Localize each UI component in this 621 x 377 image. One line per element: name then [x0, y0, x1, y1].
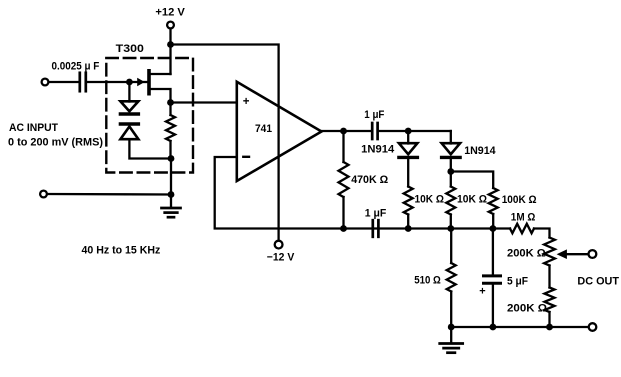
svg-text:40 Hz to 15 KHz: 40 Hz to 15 KHz	[82, 244, 161, 256]
svg-text:200K Ω: 200K Ω	[507, 303, 547, 315]
svg-text:0.0025 μ F: 0.0025 μ F	[52, 61, 100, 73]
svg-text:100K Ω: 100K Ω	[502, 194, 537, 206]
svg-text:0 to 200 mV (RMS): 0 to 200 mV (RMS)	[8, 136, 103, 148]
svg-text:200K Ω: 200K Ω	[507, 248, 546, 260]
svg-text:10K Ω: 10K Ω	[415, 193, 445, 205]
svg-text:AC INPUT: AC INPUT	[9, 122, 58, 134]
svg-text:510 Ω: 510 Ω	[414, 275, 441, 287]
svg-text:+: +	[479, 285, 485, 297]
svg-text:+: +	[243, 96, 250, 108]
svg-text:1M Ω: 1M Ω	[511, 211, 536, 223]
svg-text:470K Ω: 470K Ω	[351, 174, 388, 186]
svg-text:5 μF: 5 μF	[507, 275, 528, 287]
svg-text:−12 V: −12 V	[267, 251, 295, 263]
svg-text:DC OUT: DC OUT	[577, 275, 619, 287]
svg-text:+12 V: +12 V	[155, 7, 185, 19]
svg-text:T300: T300	[116, 43, 144, 55]
svg-text:1N914: 1N914	[361, 143, 395, 155]
svg-text:741: 741	[255, 123, 272, 135]
svg-text:1N914: 1N914	[464, 145, 496, 157]
svg-text:10K Ω: 10K Ω	[457, 193, 487, 205]
svg-text:1 μF: 1 μF	[364, 109, 384, 121]
svg-text:1 μF: 1 μF	[365, 208, 387, 220]
